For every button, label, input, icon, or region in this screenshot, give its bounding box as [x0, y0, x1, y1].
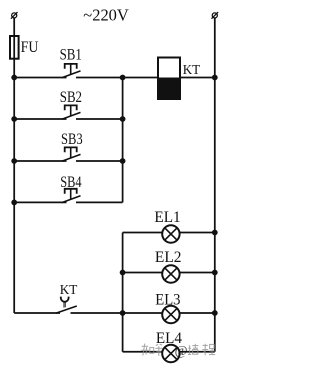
svg-text:KT: KT — [60, 283, 78, 298]
svg-text:SB1: SB1 — [60, 46, 82, 63]
svg-text:SB4: SB4 — [60, 174, 81, 191]
svg-text:EL2: EL2 — [155, 249, 182, 266]
svg-text:EL1: EL1 — [154, 209, 180, 226]
svg-text:SB2: SB2 — [60, 89, 82, 106]
svg-text:EL3: EL3 — [155, 291, 180, 308]
svg-text:FU: FU — [21, 39, 39, 56]
svg-text:@: @ — [175, 344, 188, 359]
svg-text:~220V: ~220V — [83, 6, 129, 25]
svg-text:SB3: SB3 — [61, 131, 83, 148]
svg-text:KT: KT — [183, 63, 201, 78]
